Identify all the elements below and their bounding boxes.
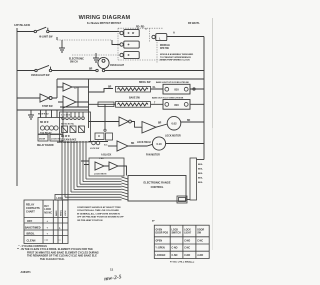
svg-text:STOP SW: STOP SW (42, 106, 53, 108)
svg-text:THE CLEAN CYCLE.: THE CLEAN CYCLE. (40, 257, 65, 261)
svg-text:TO PREVENT INTERFERENCE: TO PREVENT INTERFERENCE (160, 57, 191, 59)
svg-text:OVEN LIGHT: OVEN LIGHT (110, 65, 125, 67)
dashed module box (118, 28, 165, 63)
element 3 (120, 52, 139, 59)
wire dashed feed to element 2 (56, 37, 58, 40)
amplifier 14 (63, 96, 76, 108)
svg-text:COMPONENT SHOWN IS AT SELECT T: COMPONENT SHOWN IS AT SELECT TRIM (77, 206, 121, 209)
svg-text:BK: BK (187, 120, 191, 122)
svg-text:LOCK SW HI: LOCK SW HI (94, 174, 107, 176)
wire to buzzer (17, 97, 57, 99)
buffer fan (117, 141, 128, 151)
wire right border (203, 37, 205, 160)
wire lock motor to border (181, 121, 204, 123)
wire oven light row (17, 70, 204, 72)
svg-text:CONTROL: CONTROL (151, 185, 164, 189)
lamp 810 broil (163, 84, 190, 94)
page edge artifact (212, 18, 214, 128)
driver triangle (142, 122, 156, 134)
svg-text:BK/L: BK/L (198, 173, 204, 175)
svg-text:BK/L: BK/L (198, 169, 204, 171)
svg-text:BROIL SW: BROIL SW (139, 82, 151, 84)
ERC connector hatch (122, 177, 129, 200)
svg-text:C-NC: C-NC (197, 241, 203, 243)
svg-text:BR: BR (89, 69, 93, 71)
svg-text:0.02: 0.02 (171, 122, 177, 126)
svg-text:A: A (173, 31, 175, 35)
lamp contacts (96, 69, 98, 71)
resistor bake element (116, 102, 151, 108)
electronic range control box (128, 176, 186, 202)
wire hook to driver (131, 122, 142, 128)
wire broil to border (151, 88, 205, 90)
lock switch assembly (90, 133, 113, 150)
svg-text:SWITCH: SWITCH (172, 233, 182, 235)
svg-text:DOOR POS: DOOR POS (156, 233, 169, 235)
wire bake row (89, 103, 116, 105)
svg-text:OPEN: OPEN (156, 241, 163, 243)
svg-text:OR PRE-HEAT POSITION: OR PRE-HEAT POSITION (77, 219, 103, 222)
door position table (154, 225, 209, 258)
element W (top burner element) (120, 30, 139, 37)
wire dashed feed to element 3 (72, 54, 119, 56)
wire left border (16, 28, 18, 186)
svg-text:OFF OR PRE-HEAT POSITION SHOWN: OFF OR PRE-HEAT POSITION SHOWN IN OFF (77, 216, 124, 219)
svg-text:OVEN LIGHT SW: OVEN LIGHT SW (31, 75, 50, 77)
svg-text:OFF: OFF (27, 219, 33, 223)
svg-text:IN GENERAL ALL COMPOSITE SHOWN: IN GENERAL ALL COMPOSITE SHOWN IN (77, 212, 120, 215)
resistor broil element (116, 86, 151, 92)
svg-text:BK W R: BK W R (61, 136, 70, 138)
svg-text:NO NC: NO NC (44, 212, 52, 215)
svg-text:MODULE ASSEMBLY DESIGNED: MODULE ASSEMBLY DESIGNED (160, 53, 194, 56)
ground G1 (59, 40, 65, 52)
svg-text:CLEAN: CLEAN (27, 239, 36, 243)
svg-text:BROIL: BROIL (60, 209, 62, 216)
note component shown (77, 206, 124, 222)
svg-text:0.10: 0.10 (156, 142, 162, 146)
svg-text:LOCKED: LOCKED (156, 255, 166, 257)
svg-text:F?-NO, L?M-L SW(3)(+-): F?-NO, L?M-L SW(3)(+-) (170, 261, 194, 263)
wire to lock motor (156, 124, 167, 127)
bus horizontals fan (62, 179, 122, 200)
svg-text:C-NO: C-NO (184, 255, 190, 257)
ground G3 (28, 110, 34, 119)
svg-text:1/P BLACK: 1/P BLACK (14, 23, 31, 27)
wire amp13 in/out (57, 86, 89, 88)
oven light lamp (98, 57, 109, 68)
svg-text:BAKE LIGHT UP IN OVEN LITES BK: BAKE LIGHT UP IN OVEN LITES BK (156, 81, 190, 84)
element L (latch solenoid) (152, 34, 167, 41)
svg-text:1 BK: 1 BK (99, 158, 104, 160)
wire amp14 out (58, 101, 89, 103)
bus verticals (62, 141, 86, 200)
svg-text:ELECTRONIC RANGE: ELECTRONIC RANGE (144, 181, 171, 185)
svg-text:OVEN: OVEN (156, 230, 163, 232)
fuse bake (98, 102, 114, 107)
svg-text:3PD SW: 3PD SW (160, 48, 170, 50)
svg-text:BK/L: BK/L (198, 178, 204, 180)
wire L to right border (167, 36, 204, 38)
wire vertical x78 (77, 87, 79, 107)
terminal strip (190, 158, 204, 200)
svg-text:LOCK SW HI: LOCK SW HI (137, 142, 151, 144)
svg-text:BAKE/TIMED: BAKE/TIMED (25, 225, 41, 229)
wire to lock triangle (89, 121, 120, 123)
svg-text:C-NO: C-NO (172, 255, 178, 257)
relay aux boxes (38, 135, 63, 142)
wire broil row step (89, 89, 114, 93)
svg-text:BAKE OUT HI-LO OVEN LITES BK: BAKE OUT HI-LO OVEN LITES BK (152, 96, 184, 99)
svg-text:LOCK: LOCK (57, 198, 64, 200)
svg-text:SW CH: SW CH (70, 62, 78, 64)
wire long row y80 (57, 78, 204, 80)
svg-text:BK W R Y BU OR GY: BK W R Y BU OR GY (57, 142, 78, 144)
buzzer B (triangle with circle) (40, 94, 53, 108)
amplifier 13 (63, 83, 77, 91)
svg-text:810: 810 (174, 103, 179, 107)
svg-text:C-NO: C-NO (184, 241, 190, 243)
svg-text:* **: * ** (45, 240, 49, 243)
svg-text:LOCK: LOCK (184, 230, 191, 232)
svg-text:BAKE: BAKE (55, 210, 58, 216)
svg-text:For Models RB757GT RB787GT: For Models RB757GT RB787GT (87, 23, 122, 25)
wire rows into cluster (17, 107, 89, 110)
buffer lock (119, 117, 129, 126)
wire to fan triangle (108, 145, 117, 147)
fan motor (146, 137, 166, 156)
wires into logic box (81, 161, 127, 176)
wire fan motor to border (166, 143, 204, 145)
svg-text:FAN MOTOR: FAN MOTOR (146, 153, 160, 156)
ground G2 (93, 53, 99, 62)
svg-text:CON-DITION ALL TIME LIVE COLOR: CON-DITION ALL TIME LIVE COLOR ARE (77, 209, 119, 212)
svg-text:WHEN PERFORMING CLOCK: WHEN PERFORMING CLOCK (160, 60, 190, 62)
wire junction vertical x57 (56, 79, 58, 98)
svg-text:A BLACK: A BLACK (101, 154, 112, 157)
wire to fan motor (128, 144, 153, 146)
svg-text:LOCK: LOCK (172, 230, 179, 232)
svg-text:BR: BR (158, 123, 162, 125)
wire vertical x88 (88, 79, 90, 128)
svg-text:A-NO: A-NO (197, 254, 203, 257)
svg-text:BK: BK (131, 143, 135, 145)
svg-text:N.C.: N.C. (104, 145, 108, 147)
svg-text:WIRING DIAGRAM: WIRING DIAGRAM (79, 15, 131, 21)
svg-text:RELAY BOARD: RELAY BOARD (37, 144, 54, 147)
switch bank box (60, 112, 91, 142)
wire drop from bake row (104, 104, 106, 129)
wire feeds into relay board (41, 110, 58, 118)
svg-text:BK/L: BK/L (198, 182, 204, 184)
svg-text:11: 11 (110, 268, 114, 272)
contact stubs (63, 107, 83, 117)
plug tab (177, 196, 187, 203)
svg-text:LOCK MOTOR: LOCK MOTOR (165, 136, 181, 138)
lock motor (165, 116, 181, 137)
svg-text:DOOR: DOOR (197, 230, 204, 232)
svg-text:LOCK: LOCK (65, 210, 67, 216)
element 2 (120, 41, 139, 48)
wire top feed (17, 31, 120, 33)
svg-text:BK W R: BK W R (40, 122, 49, 124)
contact circles (62, 117, 65, 120)
switch blocks (62, 126, 68, 133)
svg-text:RD- RD-: RD- RD- (136, 27, 145, 29)
svg-text:TOD RELAY: TOD RELAY (40, 131, 52, 134)
svg-text:▲: ▲ (59, 226, 61, 229)
svg-text:NO NC NO NC: NO NC NO NC (61, 124, 75, 126)
relay board box (38, 118, 63, 135)
switch OVEN LIGHT SW (31, 65, 52, 76)
svg-text:LIGHT: LIGHT (184, 233, 192, 235)
svg-text:CHART: CHART (26, 210, 35, 213)
svg-text:MODULE: MODULE (160, 45, 170, 47)
switch HI-LIMIT SW (34, 27, 53, 38)
relay contacts chart (24, 195, 68, 244)
svg-text:1 2 3 4 5 6: 1 2 3 4 5 6 (61, 114, 70, 117)
door lock logic box (89, 158, 124, 176)
svg-text:BAKE SW: BAKE SW (129, 97, 141, 100)
svg-text:HI-LIMIT SW: HI-LIMIT SW (39, 37, 53, 39)
svg-text:810: 810 (174, 88, 179, 92)
svg-text:ELECTRONIC: ELECTRONIC (69, 59, 84, 61)
svg-text:* *: * * (58, 240, 61, 243)
svg-text:LOCK SW: LOCK SW (90, 148, 99, 150)
svg-text:BK W R BU: BK W R BU (38, 114, 49, 116)
lamp 810 bake (163, 100, 190, 110)
svg-text:RF BK/TL: RF BK/TL (188, 21, 200, 25)
svg-text:DOOR: DOOR (39, 138, 46, 140)
svg-text:A384371: A384371 (21, 271, 32, 274)
wire bake to border (151, 103, 205, 105)
wire tab to terminal strip (187, 199, 190, 201)
svg-text:BROIL: BROIL (27, 231, 35, 235)
svg-text:C-NO: C-NO (172, 248, 178, 250)
svg-text:C-NC: C-NC (184, 248, 190, 250)
svg-text:BR: BR (108, 87, 112, 89)
svg-text:BK/L: BK/L (198, 164, 204, 166)
